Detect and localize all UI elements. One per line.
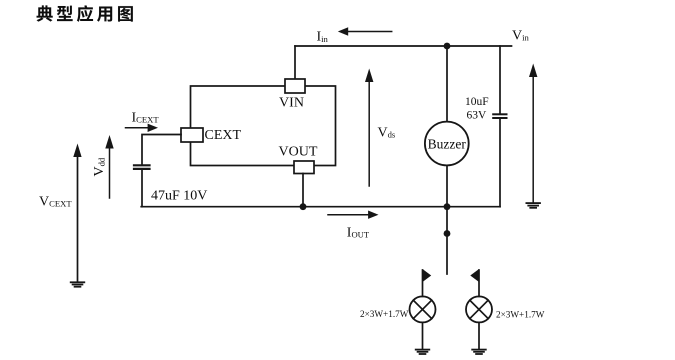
lamp L1 flag arrow <box>423 269 432 282</box>
pin box VIN <box>279 79 305 111</box>
ground lamp L2 <box>472 350 486 354</box>
arrow IOUT current <box>328 211 379 241</box>
wire buzzer top lead <box>446 46 448 122</box>
pin box VOUT <box>279 144 318 173</box>
arrow Iin current <box>317 27 392 44</box>
wire top net Vin horizontal <box>295 45 512 47</box>
lamp L2 flag arrow <box>470 269 479 282</box>
wire CEXT pin to capacitor C1 <box>142 135 181 165</box>
ground VCEXT <box>71 282 85 286</box>
IC U1 outline <box>191 86 336 166</box>
lamp L2 <box>466 270 492 349</box>
node junction lamp feed <box>444 230 451 237</box>
svg-text:47uF 10V: 47uF 10V <box>151 189 207 204</box>
arrow ICEXT current <box>126 111 160 133</box>
pin box CEXT <box>181 128 242 143</box>
arrow Vds annotation <box>365 69 396 187</box>
capacitor C2 10uF 63V <box>493 46 506 207</box>
lamp L1 <box>410 270 436 349</box>
svg-text:63V: 63V <box>467 109 488 121</box>
node junction VOUT / bus <box>300 203 307 210</box>
svg-text:VOUT: VOUT <box>279 144 318 159</box>
wire buzzer bottom lead <box>446 165 448 206</box>
arrow VCEXT annotation <box>39 144 82 282</box>
wire lamp feed stub <box>446 234 448 275</box>
svg-text:CEXT: CEXT <box>205 128 242 143</box>
wire VOUT pin drop <box>302 174 304 207</box>
title 典型应用图 <box>37 5 133 22</box>
arrow Vdd annotation <box>92 135 114 198</box>
svg-text:VIN: VIN <box>279 96 304 111</box>
wire VIN pin drop <box>294 46 296 79</box>
node junction buzzer / bus <box>444 203 451 210</box>
wire bottom bus <box>141 206 500 208</box>
svg-text:Buzzer: Buzzer <box>428 136 467 151</box>
svg-text:2×3W+1.7W: 2×3W+1.7W <box>360 309 409 319</box>
buzzer BZ1 <box>425 122 469 166</box>
svg-text:10uF: 10uF <box>465 96 489 108</box>
wire bus to lamps <box>446 207 448 234</box>
ground lamp L1 <box>416 350 430 354</box>
arrow Vin annotation <box>529 64 537 203</box>
svg-text:2×3W+1.7W: 2×3W+1.7W <box>496 309 545 319</box>
capacitor C1 47uF 10V <box>134 165 150 206</box>
label C2 value 10uF 63V <box>465 96 489 121</box>
node junction top bus / buzzer <box>444 43 451 50</box>
ground Vin <box>526 203 540 208</box>
